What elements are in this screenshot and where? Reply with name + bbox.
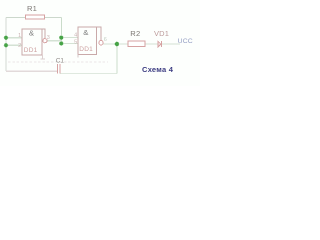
node junction dot gate2 pin2 (59, 41, 63, 45)
wire mid rail (60, 17, 62, 43)
svg-text:Схема 4: Схема 4 (142, 65, 174, 74)
wire R2 to diode (145, 43, 158, 45)
pin number 4 (74, 33, 77, 39)
svg-text:C1: C1 (56, 58, 65, 65)
diode VD1 triangle (158, 41, 161, 47)
svg-text:4: 4 (74, 33, 77, 39)
wire gate1 pin2 (6, 44, 22, 46)
pin number 6 (104, 37, 107, 43)
wire gate2 pin1 (61, 37, 78, 39)
node junction dot gate1 pin1 (4, 36, 8, 40)
wire gate2 output to R2 (103, 43, 128, 45)
svg-text:DD1: DD1 (24, 47, 38, 54)
resistor R2 (128, 41, 145, 47)
svg-text:VD1: VD1 (154, 29, 169, 38)
pin number 3 (47, 35, 50, 41)
label VD1 (154, 29, 169, 38)
caption Схема 4 (142, 65, 174, 74)
label R2 (130, 29, 140, 38)
svg-text:1: 1 (18, 33, 21, 39)
wire gate2 pin2 (61, 43, 78, 45)
wire left rail (5, 17, 7, 71)
wire gate1 output (47, 40, 61, 42)
diode VD1 cathode bar (160, 41, 162, 47)
wire bottom right from C1 (60, 72, 117, 74)
gate2 output stub (97, 27, 101, 40)
svg-text:R1: R1 (27, 4, 37, 13)
node junction dot gate1 pin2 (4, 43, 8, 47)
svg-text:3: 3 (47, 35, 50, 41)
gate2 label DD1 (79, 46, 93, 53)
gate1 ampersand (29, 29, 34, 38)
wire R1 left (6, 16, 25, 18)
svg-text:R2: R2 (130, 29, 140, 38)
op gate U1b box (DD1.2) (78, 27, 97, 55)
label R1 (27, 4, 37, 13)
label C1 (56, 58, 65, 65)
supply label Ucc (178, 38, 193, 45)
capacitor C1 plate left (57, 64, 59, 73)
node junction dot output (115, 42, 119, 46)
gate2 ampersand (83, 28, 88, 37)
wire gate1 pin1 (6, 37, 22, 39)
gate2 inversion bubble (99, 41, 103, 45)
pin number 2 (18, 43, 21, 49)
pin number 1 (18, 33, 21, 39)
gate2 bottom pin stub (77, 55, 79, 58)
gate1 inversion bubble (43, 39, 47, 43)
wire bottom left to C1 (6, 70, 58, 72)
op gate U1a box (DD1.1) (22, 29, 42, 55)
gate1 bottom pin stub (41, 55, 46, 59)
gate1 label DD1 (24, 47, 38, 54)
wire diode to supply terminal (162, 43, 180, 45)
svg-text:6: 6 (104, 37, 107, 43)
resistor R1 (25, 15, 44, 19)
faint ghost line (8, 61, 108, 63)
node junction dot gate2 pin1 (59, 36, 63, 40)
svg-text:&: & (29, 29, 34, 38)
wire R1 right to mid rail (45, 16, 62, 18)
svg-text:&: & (83, 28, 88, 37)
pin number 5 (74, 39, 77, 45)
svg-text:2: 2 (18, 43, 21, 49)
svg-text:5: 5 (74, 39, 77, 45)
gate1 output stub (42, 29, 45, 39)
capacitor C1 plate right (59, 64, 61, 73)
svg-text:DD1: DD1 (79, 46, 93, 53)
wire riser to output junction (116, 44, 118, 73)
svg-text:UCC: UCC (178, 38, 193, 45)
